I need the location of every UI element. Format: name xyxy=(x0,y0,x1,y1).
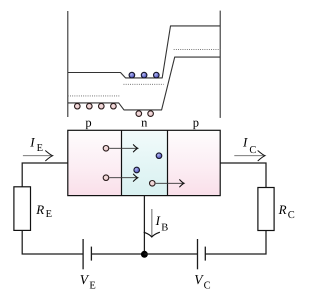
wire node to battery VC xyxy=(144,253,197,255)
hole carrier 3 in base xyxy=(150,181,156,187)
svg-text:V: V xyxy=(80,272,90,287)
arrow from hole 1 xyxy=(110,147,137,149)
svg-text:p: p xyxy=(193,116,199,130)
hole h1 below valence band (p region) xyxy=(75,103,81,109)
svg-text:B: B xyxy=(161,223,168,234)
hole h4 below valence band (p region) xyxy=(111,103,117,109)
svg-text:C: C xyxy=(204,280,211,291)
svg-text:p: p xyxy=(85,116,91,130)
svg-text:n: n xyxy=(141,116,148,130)
left axis xyxy=(67,11,69,117)
svg-text:E: E xyxy=(89,280,95,291)
hole carrier 1 in emitter xyxy=(103,146,109,152)
battery V_E short plate xyxy=(90,247,92,261)
p collector region fill xyxy=(168,130,221,195)
I_E current arrow xyxy=(23,155,51,157)
svg-text:E: E xyxy=(46,209,52,220)
svg-text:E: E xyxy=(37,143,43,154)
hole h6 below valence band (n region) xyxy=(148,111,154,117)
Fermi level (right p), dotted xyxy=(174,48,221,50)
electron e3 on conduction band xyxy=(154,72,160,78)
svg-text:C: C xyxy=(288,210,295,221)
Fermi level (n), dotted xyxy=(124,83,164,85)
svg-text:R: R xyxy=(35,202,44,217)
junction divider 1 xyxy=(121,130,123,195)
p emitter region fill xyxy=(68,130,122,195)
wire battery VC to right riser xyxy=(205,231,266,255)
svg-text:I: I xyxy=(155,213,161,228)
conduction band edge xyxy=(68,26,220,78)
battery V_E long plate xyxy=(82,239,84,269)
arrow from hole 2 xyxy=(110,177,137,179)
wire resistor to bottom xyxy=(22,230,83,254)
Fermi level (left p), dotted xyxy=(68,95,120,97)
n base region fill xyxy=(122,130,168,195)
hole h2 below valence band (p region) xyxy=(87,103,93,109)
svg-text:I: I xyxy=(242,134,248,149)
hole carrier 2 in emitter xyxy=(103,175,109,181)
battery V_C long plate xyxy=(197,239,199,269)
junction divider 2 xyxy=(167,130,169,195)
I_B current arrow xyxy=(151,209,153,236)
body outline xyxy=(68,130,220,195)
svg-text:I: I xyxy=(29,134,35,149)
right axis xyxy=(219,11,221,118)
svg-text:C: C xyxy=(249,145,256,156)
base lead wire xyxy=(143,196,145,254)
node (junction dot) xyxy=(141,251,148,258)
wire battery VE to node xyxy=(91,253,144,255)
svg-text:R: R xyxy=(278,202,287,217)
electron e1 on conduction band xyxy=(129,72,135,78)
resistor R_C xyxy=(258,188,274,231)
battery V_C short plate xyxy=(204,247,206,261)
arrow from hole 3 xyxy=(156,182,183,184)
wire resistor RC to collector lead xyxy=(220,163,266,188)
resistor R_E xyxy=(14,187,31,231)
valence band edge xyxy=(68,57,220,110)
emitter lead wire xyxy=(22,163,68,187)
hole h5 below valence band (n region) xyxy=(136,111,142,117)
I_C current arrow xyxy=(234,155,263,157)
electron e2 on conduction band xyxy=(141,72,147,78)
electron carrier 1 in base xyxy=(156,153,162,159)
hole h3 below valence band (p region) xyxy=(99,103,105,109)
electron carrier 2 in base xyxy=(134,167,140,173)
